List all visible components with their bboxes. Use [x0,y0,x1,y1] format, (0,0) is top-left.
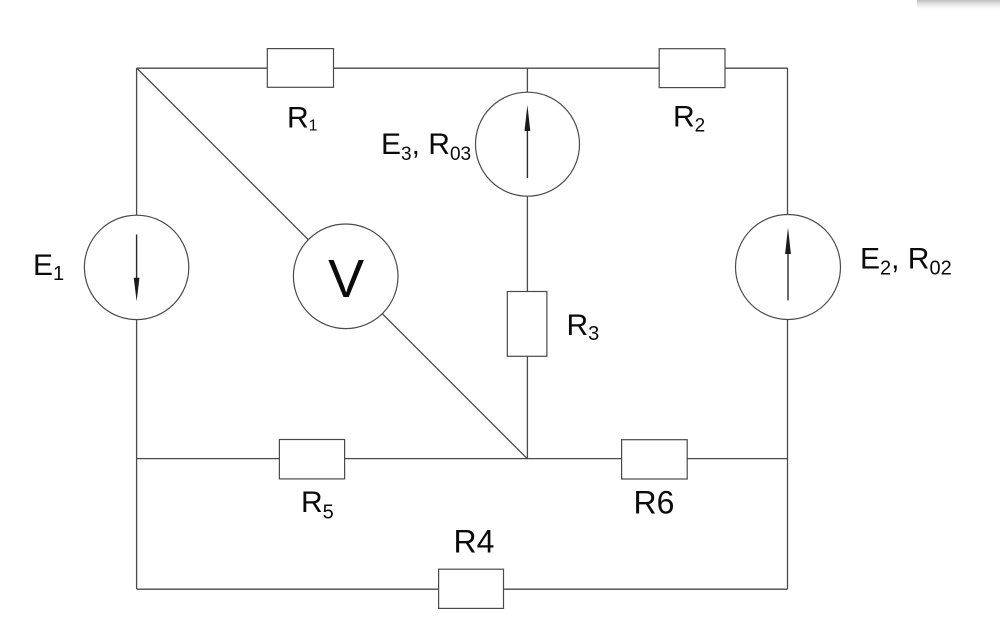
resistor R2 box [659,49,725,88]
voltage source E1 [84,215,188,319]
wire bottommost horizontal through R4 [137,588,788,590]
wire right vertical [787,68,789,589]
wire bottom horizontal through R5 R6 [137,458,788,460]
wire diagonal through voltmeter [137,68,527,458]
resistor R1 box [267,49,333,88]
resistor R3 box [507,292,547,357]
resistor R4 box [439,569,504,608]
voltage source E3 [476,92,580,196]
wire left vertical [136,68,138,589]
voltage source E2 [736,215,841,320]
svg-text:V: V [328,249,364,309]
screenshot artifact grey bar top-right [917,0,1000,9]
wire middle vertical [526,68,528,459]
resistor R6 box [622,440,688,479]
svg-text:R6: R6 [634,484,675,520]
wire top horizontal [137,67,788,69]
svg-text:R4: R4 [454,523,495,559]
voltmeter V [293,224,398,329]
resistor R5 box [279,440,344,479]
